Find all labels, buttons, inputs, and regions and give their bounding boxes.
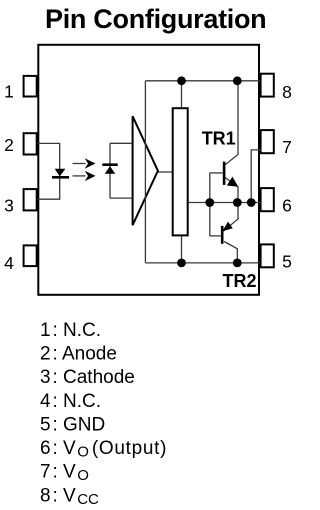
svg-text:5: 5 [282, 252, 292, 272]
svg-text:4: 4 [4, 253, 14, 273]
svg-text:2 : Anode: 2 : Anode [40, 344, 117, 365]
svg-text:5 : GND: 5 : GND [40, 414, 105, 435]
svg-text:7: 7 [282, 137, 292, 157]
svg-text:6 : VO (Output): 6 : VO (Output) [40, 438, 167, 460]
svg-text:3 : Cathode: 3 : Cathode [40, 367, 135, 388]
svg-text:TR2: TR2 [222, 271, 256, 291]
svg-text:4 : N.C.: 4 : N.C. [40, 391, 101, 412]
svg-text:8: 8 [282, 82, 292, 102]
svg-text:1: 1 [4, 81, 14, 101]
svg-text:1 : N.C.: 1 : N.C. [40, 320, 101, 341]
svg-text:Pin Configuration: Pin Configuration [45, 4, 266, 34]
svg-text:2: 2 [4, 135, 14, 155]
svg-text:3: 3 [4, 195, 14, 215]
svg-text:6: 6 [282, 195, 292, 215]
svg-text:TR1: TR1 [202, 128, 236, 148]
